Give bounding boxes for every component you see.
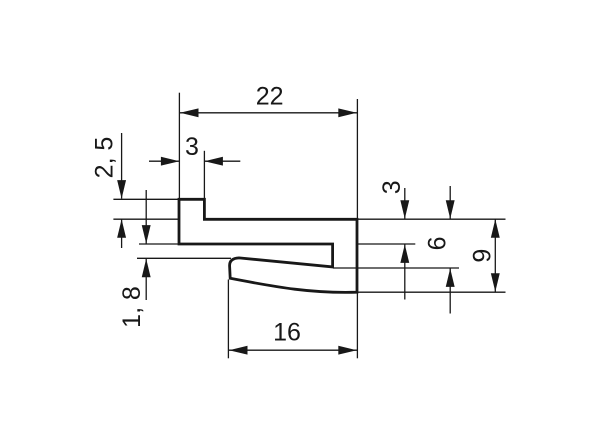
ext line x228 (16) bbox=[227, 280, 229, 359]
dim line 2,5 upper bbox=[121, 133, 123, 199]
dim line 6 upper bbox=[449, 186, 451, 219]
svg-text:9: 9 bbox=[469, 249, 497, 263]
arrow 1,8 top bbox=[142, 225, 151, 244]
svg-text:6: 6 bbox=[424, 236, 452, 250]
dim line 9 bbox=[494, 219, 496, 291]
arrow 3 top left bbox=[161, 157, 180, 166]
svg-text:1,8: 1,8 bbox=[118, 286, 146, 328]
svg-text:3: 3 bbox=[378, 180, 406, 194]
ext line x204 (3 top) bbox=[203, 151, 205, 200]
dim line 22 bbox=[179, 112, 357, 114]
ext line y199 left bbox=[113, 198, 179, 200]
ext line y243 left bbox=[139, 243, 179, 245]
ext line y219 right bbox=[357, 218, 506, 220]
ext line x179 (22 &amp; 3 top) bbox=[178, 93, 180, 200]
ext line y292 right bbox=[357, 291, 506, 293]
dim line 3 top right tail bbox=[204, 160, 240, 162]
arrow 3 right top bbox=[400, 200, 409, 219]
dim line 1,8 upper bbox=[145, 190, 147, 244]
profile outline (thick) bbox=[179, 199, 357, 292]
dim line 1,8 lower bbox=[145, 259, 147, 300]
dim line 3 right lower bbox=[404, 244, 406, 299]
arrow 16 right bbox=[338, 346, 357, 355]
arrow 22 left bbox=[180, 108, 199, 117]
arrow 3 right bottom bbox=[400, 244, 409, 263]
arrow 2,5 bottom bbox=[117, 219, 126, 238]
arrow 1,8 bottom bbox=[142, 259, 151, 278]
dim line 3 top left tail bbox=[149, 160, 179, 162]
dim line 16 bbox=[228, 349, 357, 351]
arrow 9 bottom bbox=[491, 273, 500, 292]
svg-text:2,5: 2,5 bbox=[90, 137, 118, 179]
arrow 22 right bbox=[338, 108, 357, 117]
ext line y219 left bbox=[113, 218, 179, 220]
dim line 2,5 lower bbox=[121, 219, 123, 248]
arrow 16 left bbox=[229, 346, 248, 355]
arrow 6 bottom bbox=[446, 268, 455, 287]
svg-text:22: 22 bbox=[256, 82, 284, 110]
svg-text:16: 16 bbox=[273, 318, 301, 346]
dim line 6 lower bbox=[449, 268, 451, 313]
ext line x357 lower (16) bbox=[356, 292, 358, 358]
svg-text:3: 3 bbox=[185, 133, 199, 161]
arrow 3 top right bbox=[204, 157, 223, 166]
ext line y268 right bbox=[333, 267, 459, 269]
ext line x357 upper (22) bbox=[356, 99, 358, 219]
dim line 3 right upper bbox=[404, 188, 406, 219]
arrow 6 top bbox=[446, 200, 455, 219]
ext line y258 left (lip top) bbox=[137, 257, 231, 259]
ext line y243 right bbox=[357, 243, 415, 245]
arrow 2,5 top bbox=[117, 180, 126, 199]
arrow 9 top bbox=[491, 219, 500, 238]
